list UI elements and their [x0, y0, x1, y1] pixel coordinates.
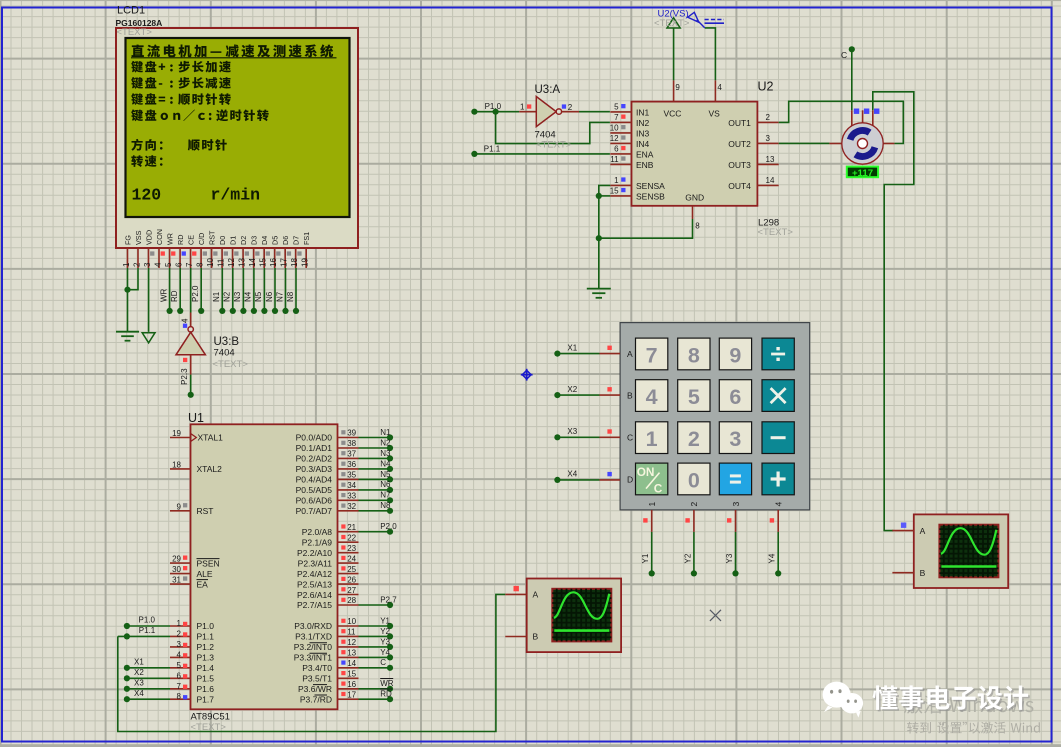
svg-text:P0.5/AD5: P0.5/AD5 [296, 485, 333, 495]
svg-text:RST: RST [207, 230, 216, 245]
svg-text:P1.5: P1.5 [197, 674, 215, 684]
svg-text:37: 37 [347, 450, 356, 459]
svg-text:RD: RD [176, 235, 185, 245]
svg-text:P2.3/A11: P2.3/A11 [298, 558, 333, 568]
svg-text:OUT1: OUT1 [728, 118, 751, 128]
svg-text:4: 4 [774, 502, 784, 507]
svg-text:U3:B: U3:B [214, 336, 240, 348]
svg-text:7: 7 [646, 344, 658, 368]
svg-text:4: 4 [181, 318, 190, 323]
svg-text:8: 8 [177, 692, 182, 701]
svg-text:P2.3: P2.3 [180, 368, 189, 385]
svg-text:P2.4/A12: P2.4/A12 [297, 569, 332, 579]
svg-text:2: 2 [177, 629, 182, 638]
svg-text:35: 35 [347, 471, 356, 480]
svg-text:RD: RD [380, 690, 392, 699]
svg-text:P1.1: P1.1 [139, 626, 156, 635]
svg-text:36: 36 [347, 460, 356, 469]
svg-text:17: 17 [347, 691, 356, 700]
svg-text:P3.6/WR: P3.6/WR [298, 684, 332, 694]
svg-text:2: 2 [568, 103, 573, 112]
svg-text:SENSA: SENSA [636, 181, 665, 191]
svg-text:P3.2/INT0: P3.2/INT0 [294, 642, 333, 652]
svg-text:2: 2 [688, 427, 700, 451]
svg-text:1: 1 [614, 176, 619, 185]
svg-text:PSEN: PSEN [197, 558, 220, 568]
svg-text:P3.5/T1: P3.5/T1 [302, 674, 332, 684]
svg-text:P1.1: P1.1 [197, 632, 215, 642]
svg-text:X3: X3 [567, 427, 577, 436]
svg-text:9: 9 [729, 344, 741, 368]
svg-text:Y1: Y1 [641, 553, 650, 563]
svg-text:23: 23 [347, 544, 356, 553]
svg-text:6: 6 [177, 671, 182, 680]
svg-text:15: 15 [347, 670, 356, 679]
svg-text:P3.7/RD: P3.7/RD [300, 695, 332, 705]
svg-text:N8: N8 [286, 291, 295, 302]
svg-text:P1.7: P1.7 [197, 695, 215, 705]
svg-text:OUT4: OUT4 [728, 181, 751, 191]
svg-text:N3: N3 [380, 449, 391, 458]
svg-text:X3: X3 [134, 679, 144, 688]
svg-text:17: 17 [280, 258, 289, 267]
svg-text:+117: +117 [852, 168, 873, 179]
svg-text:N1: N1 [380, 428, 391, 437]
svg-text:P2.7/A15: P2.7/A15 [297, 600, 332, 610]
svg-text:ENB: ENB [636, 160, 654, 170]
svg-text:X4: X4 [134, 689, 144, 698]
svg-text:15: 15 [610, 187, 619, 196]
svg-text:C/D: C/D [197, 233, 206, 245]
svg-text:EA: EA [197, 579, 209, 589]
svg-text:AT89C51: AT89C51 [191, 712, 230, 723]
svg-text:4: 4 [717, 83, 722, 92]
svg-text:13: 13 [347, 649, 356, 658]
svg-text:D: D [627, 474, 633, 484]
svg-text:B: B [533, 632, 539, 642]
svg-text:N6: N6 [265, 291, 274, 302]
svg-text:4: 4 [177, 650, 182, 659]
svg-text:Y3: Y3 [725, 553, 734, 563]
svg-text:P0.0/AD0: P0.0/AD0 [296, 433, 333, 443]
svg-text:SENSB: SENSB [636, 191, 665, 201]
svg-text:11: 11 [347, 628, 356, 637]
svg-text:P3.3/INT1: P3.3/INT1 [294, 653, 333, 663]
svg-text:D5: D5 [271, 236, 280, 245]
svg-text:P3.0/RXD: P3.0/RXD [294, 621, 332, 631]
svg-text:29: 29 [172, 555, 181, 564]
svg-text:Y4: Y4 [380, 648, 390, 657]
svg-text:C: C [627, 433, 633, 443]
svg-text:26: 26 [347, 575, 356, 584]
svg-text:C: C [380, 658, 386, 667]
svg-text:22: 22 [347, 533, 356, 542]
svg-text:D7: D7 [292, 236, 301, 245]
svg-text:16: 16 [347, 680, 356, 689]
svg-text:32: 32 [347, 502, 356, 511]
svg-text:A: A [533, 590, 539, 600]
svg-text:33: 33 [347, 492, 356, 501]
svg-text:U3:A: U3:A [535, 84, 561, 96]
svg-text:1: 1 [647, 502, 657, 507]
svg-text:6: 6 [175, 262, 184, 267]
svg-text:P2.7: P2.7 [380, 595, 397, 604]
svg-text:CON: CON [155, 229, 164, 245]
svg-text:VDD: VDD [144, 230, 153, 245]
svg-text:6: 6 [729, 385, 741, 409]
svg-text:X2: X2 [134, 668, 144, 677]
svg-text:A: A [627, 349, 633, 359]
svg-text:WR: WR [159, 288, 168, 302]
svg-text:VCC: VCC [664, 109, 682, 119]
svg-text:12: 12 [347, 638, 356, 647]
svg-text:7: 7 [614, 113, 619, 122]
svg-text:FG: FG [123, 235, 132, 245]
svg-text:N4: N4 [380, 459, 391, 468]
svg-text:P1.2: P1.2 [197, 642, 215, 652]
svg-text:N5: N5 [254, 291, 263, 302]
svg-text:U1: U1 [188, 411, 204, 425]
svg-text:P2.0: P2.0 [191, 285, 200, 302]
svg-text:P0.7/AD7: P0.7/AD7 [296, 506, 333, 516]
svg-text:2: 2 [133, 262, 142, 267]
svg-text:5: 5 [614, 103, 619, 112]
svg-text:VSS: VSS [134, 230, 143, 245]
svg-text:N1: N1 [212, 291, 221, 302]
svg-text:4: 4 [154, 262, 163, 267]
svg-text:P1.0: P1.0 [197, 621, 215, 631]
svg-text:25: 25 [347, 565, 356, 574]
svg-text:N8: N8 [380, 501, 391, 510]
svg-text:19: 19 [301, 258, 310, 267]
svg-text:D0: D0 [218, 236, 227, 245]
svg-text:X1: X1 [567, 343, 577, 352]
svg-text:10: 10 [347, 617, 356, 626]
svg-text:34: 34 [347, 481, 356, 490]
svg-text:P0.4/AD4: P0.4/AD4 [296, 475, 333, 485]
svg-text:U2: U2 [758, 80, 774, 94]
svg-text:31: 31 [172, 576, 181, 585]
svg-text:D1: D1 [228, 236, 237, 245]
svg-text:P1.0: P1.0 [485, 102, 502, 111]
svg-text:11: 11 [217, 258, 226, 267]
svg-text:6: 6 [614, 145, 619, 154]
svg-text:IN1: IN1 [636, 107, 650, 117]
svg-text:P1.1: P1.1 [484, 144, 501, 153]
svg-text:P2.0/A8: P2.0/A8 [302, 527, 333, 537]
svg-text:IN4: IN4 [636, 139, 650, 149]
svg-text:10: 10 [206, 258, 215, 267]
svg-text:4: 4 [646, 385, 658, 409]
svg-text:19: 19 [172, 429, 181, 438]
svg-text:5: 5 [177, 661, 182, 670]
svg-text:30: 30 [172, 565, 181, 574]
svg-text:OUT3: OUT3 [728, 160, 751, 170]
svg-text:P0.1/AD1: P0.1/AD1 [296, 443, 333, 453]
svg-text:3: 3 [766, 134, 771, 143]
svg-text:N3: N3 [233, 291, 242, 302]
svg-text:P0.6/AD6: P0.6/AD6 [296, 496, 333, 506]
svg-text:<TEXT>: <TEXT> [758, 227, 794, 238]
svg-text:28: 28 [347, 596, 356, 605]
svg-text:LCD1: LCD1 [117, 5, 145, 17]
svg-text:Y3: Y3 [380, 637, 390, 646]
svg-text:14: 14 [766, 176, 775, 185]
svg-text:OUT2: OUT2 [728, 139, 751, 149]
svg-text:D4: D4 [260, 236, 269, 245]
svg-text:<TEXT>: <TEXT> [654, 18, 690, 29]
svg-text:P2.2/A10: P2.2/A10 [297, 548, 332, 558]
svg-text:3: 3 [143, 262, 152, 267]
svg-text:P1.3: P1.3 [197, 653, 215, 663]
svg-text:12: 12 [610, 134, 619, 143]
svg-text:8: 8 [196, 262, 205, 267]
svg-text:P3.4/T0: P3.4/T0 [302, 663, 332, 673]
svg-text:3: 3 [731, 502, 741, 507]
svg-text:7404: 7404 [214, 348, 235, 359]
svg-text:N4: N4 [244, 291, 253, 302]
svg-text:Y1: Y1 [380, 616, 390, 625]
svg-text:15: 15 [259, 258, 268, 267]
svg-text:X1: X1 [134, 658, 144, 667]
svg-text:13: 13 [238, 258, 247, 267]
svg-text:P2.0: P2.0 [380, 522, 397, 531]
svg-text:C: C [841, 50, 847, 60]
svg-text:IN3: IN3 [636, 128, 650, 138]
svg-text:38: 38 [347, 439, 356, 448]
svg-text:11: 11 [610, 155, 619, 164]
svg-text:P1.6: P1.6 [197, 684, 215, 694]
svg-text:8: 8 [688, 344, 700, 368]
svg-text:N2: N2 [380, 438, 391, 447]
svg-text:ALE: ALE [197, 569, 213, 579]
svg-text:Y4: Y4 [768, 553, 777, 563]
svg-text:27: 27 [347, 586, 356, 595]
svg-text:14: 14 [248, 258, 257, 267]
svg-text:3: 3 [177, 640, 182, 649]
svg-text:14: 14 [347, 659, 356, 668]
svg-text:12: 12 [227, 258, 236, 267]
svg-text:3: 3 [729, 427, 741, 451]
svg-text:Y2: Y2 [380, 627, 390, 636]
svg-text:C: C [654, 481, 663, 495]
svg-text:N6: N6 [380, 480, 391, 489]
svg-text:RD: RD [170, 290, 179, 302]
svg-text:X4: X4 [567, 470, 577, 479]
svg-text:N7: N7 [380, 491, 391, 500]
svg-text:P1.0: P1.0 [139, 616, 156, 625]
svg-text:D3: D3 [250, 236, 259, 245]
svg-text:P2.5/A13: P2.5/A13 [297, 579, 332, 589]
svg-text:10: 10 [610, 124, 619, 133]
svg-text:P2.1/A9: P2.1/A9 [302, 537, 333, 547]
svg-text:<TEXT>: <TEXT> [117, 27, 153, 38]
svg-text:1: 1 [520, 103, 525, 112]
svg-text:0: 0 [688, 469, 700, 493]
svg-text:2: 2 [766, 113, 771, 122]
svg-text:Y2: Y2 [683, 553, 692, 563]
svg-text:N7: N7 [275, 291, 284, 302]
svg-text:16: 16 [269, 258, 278, 267]
svg-text:FS1: FS1 [302, 232, 311, 245]
svg-text:XTAL2: XTAL2 [197, 464, 223, 474]
svg-text:1: 1 [122, 262, 131, 267]
svg-text:B: B [920, 568, 926, 578]
svg-text:5: 5 [164, 262, 173, 267]
svg-text:P0.3/AD3: P0.3/AD3 [296, 464, 333, 474]
svg-text:P3.1/TXD: P3.1/TXD [295, 632, 332, 642]
svg-text:<TEXT>: <TEXT> [213, 359, 249, 370]
svg-text:39: 39 [347, 429, 356, 438]
svg-text:GND: GND [685, 193, 704, 203]
svg-text:P1.4: P1.4 [197, 663, 215, 673]
svg-text:9: 9 [177, 502, 182, 511]
svg-text:P0.2/AD2: P0.2/AD2 [296, 454, 333, 464]
svg-text:VS: VS [709, 109, 721, 119]
svg-text:5: 5 [688, 385, 700, 409]
svg-text:IN2: IN2 [636, 118, 650, 128]
svg-text:r/min: r/min [211, 185, 261, 204]
svg-text:CE: CE [186, 235, 195, 245]
svg-text:18: 18 [290, 258, 299, 267]
svg-text:1: 1 [177, 619, 182, 628]
svg-text:24: 24 [347, 554, 356, 563]
svg-text:D2: D2 [239, 236, 248, 245]
svg-text:XTAL1: XTAL1 [198, 433, 224, 443]
svg-text:7: 7 [177, 682, 182, 691]
svg-text:<TEXT>: <TEXT> [536, 140, 572, 151]
svg-text:9: 9 [675, 83, 680, 92]
svg-text:ENA: ENA [636, 149, 654, 159]
svg-text:120: 120 [132, 185, 162, 204]
svg-text:8: 8 [695, 221, 700, 230]
svg-text:18: 18 [172, 460, 181, 469]
svg-text:A: A [920, 526, 926, 536]
svg-text:N2: N2 [223, 291, 232, 302]
svg-text:B: B [627, 391, 633, 401]
svg-text:2: 2 [689, 502, 699, 507]
svg-text:RST: RST [197, 506, 214, 516]
svg-text:21: 21 [347, 523, 356, 532]
svg-text:7: 7 [185, 262, 194, 267]
svg-text:D6: D6 [281, 236, 290, 245]
svg-text:1: 1 [646, 427, 658, 451]
svg-text:ON: ON [637, 465, 655, 479]
svg-text:N5: N5 [380, 470, 391, 479]
svg-text:X2: X2 [567, 385, 577, 394]
svg-text:WR: WR [165, 233, 174, 245]
svg-text:WR: WR [380, 679, 394, 688]
svg-text:P2.6/A14: P2.6/A14 [297, 590, 332, 600]
svg-text:13: 13 [766, 155, 775, 164]
